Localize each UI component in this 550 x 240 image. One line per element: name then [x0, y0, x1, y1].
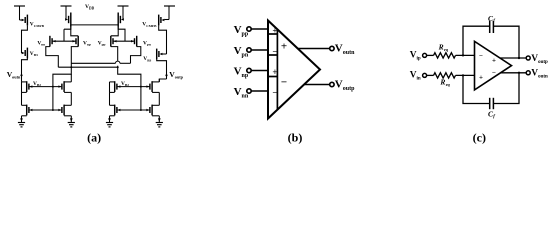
svg-text:−: − — [272, 88, 277, 98]
svg-text:(a): (a) — [87, 130, 101, 144]
svg-text:(c): (c) — [473, 130, 486, 144]
svg-text:−: − — [479, 52, 483, 60]
svg-text:−: − — [272, 47, 277, 57]
svg-text:+: + — [272, 67, 277, 77]
svg-text:(b): (b) — [288, 130, 303, 144]
svg-text:R: R — [439, 78, 445, 87]
svg-text:R: R — [438, 43, 444, 52]
svg-text:+: + — [272, 26, 277, 36]
svg-text:+: + — [492, 56, 496, 64]
svg-text:DD: DD — [89, 6, 95, 10]
svg-text:−: − — [281, 76, 287, 88]
svg-text:−: − — [492, 68, 496, 76]
svg-text:+: + — [479, 74, 483, 82]
svg-text:+: + — [281, 41, 287, 53]
